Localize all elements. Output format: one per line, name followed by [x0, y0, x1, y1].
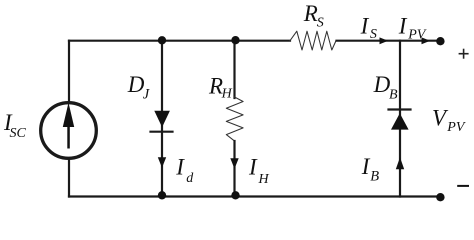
svg-text:S: S	[317, 15, 324, 30]
arrowhead I_d	[158, 157, 166, 167]
wire left rail lower	[68, 159, 70, 197]
label I_PV	[398, 13, 427, 42]
plus terminal sign	[459, 49, 469, 59]
svg-text:B: B	[370, 169, 379, 185]
wire R_H branch upper	[233, 41, 235, 98]
label V_PV	[432, 105, 466, 135]
wire diode D_B branch	[399, 41, 401, 197]
wire bottom rail	[69, 195, 438, 197]
diode D_J triangle	[154, 111, 170, 128]
label R_H	[208, 73, 233, 101]
label R_S	[303, 1, 324, 30]
svg-text:H: H	[221, 87, 233, 102]
arrowhead I_PV	[422, 37, 431, 44]
node dot top D_J junction	[158, 36, 166, 44]
diode D_J cathode bar	[151, 131, 173, 133]
svg-text:SC: SC	[10, 126, 27, 141]
minus terminal sign	[457, 185, 469, 187]
svg-text:H: H	[258, 172, 270, 187]
label D_B	[373, 72, 398, 102]
svg-text:D: D	[373, 72, 391, 97]
svg-text:I: I	[360, 13, 370, 38]
svg-text:I: I	[175, 154, 185, 179]
label I_B	[361, 154, 379, 185]
svg-text:R: R	[303, 1, 318, 26]
svg-text:S: S	[370, 27, 377, 42]
svg-text:I: I	[248, 155, 258, 180]
label I_H	[248, 155, 270, 188]
diode D_B cathode bar	[389, 108, 411, 110]
wire diode D_J branch	[161, 41, 163, 197]
svg-text:J: J	[143, 86, 150, 102]
label D_J	[127, 72, 150, 102]
label I_SC	[3, 110, 27, 141]
diode D_B triangle	[391, 113, 409, 129]
wire top rail left segment	[69, 40, 290, 42]
arrowhead I_S	[380, 37, 389, 44]
arrowhead I_H	[230, 158, 238, 168]
svg-text:d: d	[186, 171, 194, 186]
svg-text:B: B	[389, 87, 398, 102]
resistor R_S zigzag	[290, 31, 336, 50]
terminal dot top right	[436, 37, 444, 45]
svg-text:PV: PV	[446, 120, 466, 135]
node dot top R_H junction	[231, 36, 239, 44]
resistor R_H zigzag	[226, 97, 243, 141]
svg-text:I: I	[398, 13, 408, 38]
label I_S	[360, 13, 377, 42]
current source I_SC circle	[41, 103, 97, 159]
node dot bottom R_H junction	[231, 191, 239, 199]
wire top rail right segment	[337, 40, 439, 42]
node dot bottom D_J junction	[158, 191, 166, 199]
terminal dot bottom right	[436, 193, 444, 201]
svg-text:PV: PV	[407, 28, 427, 43]
arrowhead I_B	[396, 157, 404, 169]
wire R_H branch lower	[233, 141, 235, 197]
label I_d	[175, 154, 194, 186]
current source arrow	[67, 122, 70, 149]
wire left rail upper	[68, 41, 70, 103]
